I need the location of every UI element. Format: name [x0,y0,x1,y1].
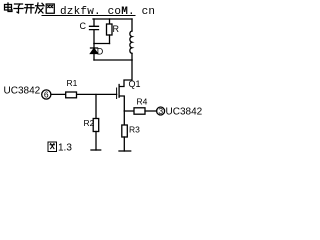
resistor R3 [122,125,128,137]
wire C branch top [93,19,95,26]
watermark text dzkfw.coM.cn [60,6,155,18]
wire drain jog [119,60,132,87]
svg-text:R2: R2 [84,118,95,128]
capacitor C [90,26,99,29]
svg-text:R: R [113,24,120,34]
wire C-R join [94,43,110,45]
svg-text:C: C [80,21,87,31]
watermark text 电子开发网 (hand-drawn glyphs) [5,3,55,13]
IC pin 3 UC3842 [157,107,165,115]
wire C bottom [93,30,95,44]
svg-text:R3: R3 [129,125,140,135]
svg-text:dzkfw. coM. cn: dzkfw. coM. cn [60,6,155,18]
label R2 [84,118,95,128]
watermark underline [42,15,135,17]
transistor Q1 [118,85,120,98]
svg-text:3: 3 [158,106,163,116]
wire top rail [93,18,132,20]
wire diode bottom lead [93,54,95,61]
wire R4 to pin3 [145,110,157,112]
svg-text:D: D [97,47,104,57]
resistor R1 [66,92,77,98]
inductor L top lead [131,19,133,31]
caption 图1.3 [48,142,57,152]
label R4 [137,97,148,107]
wire R3 branch [123,111,125,125]
ground right [119,150,131,152]
label C [80,21,87,31]
resistor R [107,24,113,35]
wire snubber bottom [94,59,132,61]
resistor R2 [93,119,99,132]
label UC3842 left [4,86,41,97]
wire source node to R4 [124,110,134,112]
wire R2 branch [95,95,97,119]
diode D [91,47,98,49]
wire R stub top [109,19,111,24]
label Q1 [129,79,141,89]
ground left [91,149,101,151]
svg-text:Q1: Q1 [129,79,141,89]
wire R2 to ground [95,132,97,151]
label R [113,24,120,34]
wire diode top lead [93,44,95,49]
label R3 [129,125,140,135]
svg-text:R1: R1 [67,78,78,88]
svg-text:R4: R4 [137,97,148,107]
label D [97,47,104,57]
wire gate lead [51,93,117,95]
svg-text:UC3842: UC3842 [4,86,41,97]
inductor L bottom lead [131,53,133,60]
wire R3 to ground [123,137,125,151]
label R1 [67,78,78,88]
svg-text:6: 6 [44,90,49,100]
IC pin 6 UC3842 [42,90,51,99]
resistor R4 [134,108,145,114]
svg-text:1.3: 1.3 [58,143,72,154]
wire R stub bottom [109,35,111,44]
inductor L [130,31,132,53]
wire Q1 source [119,96,124,111]
svg-text:UC3842: UC3842 [166,107,203,118]
label UC3842 right [166,107,203,118]
